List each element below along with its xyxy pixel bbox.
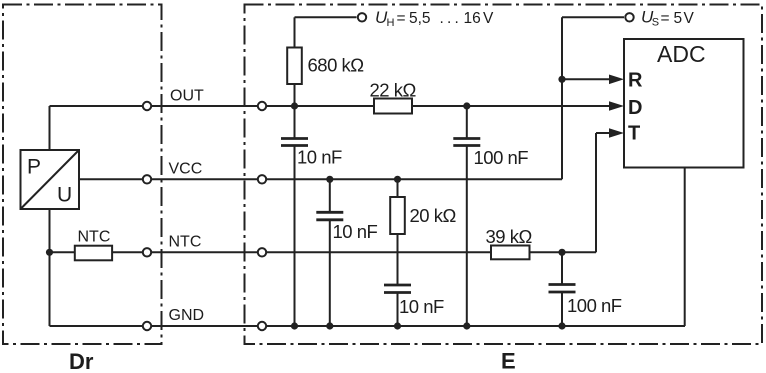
wire UH supply riser [294,17,296,47]
arrow into ADC pin T [609,128,624,138]
svg-text:Dr: Dr [69,349,94,373]
wire to NTC resistor [50,251,75,253]
svg-text:10 nF: 10 nF [297,147,342,168]
node C4/GND junction [463,322,470,329]
wire NTC rail connector [152,251,257,253]
wire sensor OUT vertical [49,106,51,150]
capacitor C1 10 nF [281,139,308,146]
terminal circle OUT E [258,102,266,110]
node R tap junction [558,76,565,83]
thermistor NTC [75,246,112,261]
wire NTC rail after 39k [530,251,597,253]
svg-text:H: H [387,17,395,29]
capacitor C5 100 nF [549,285,576,293]
terminal circle NTC E [258,248,266,256]
wire NTC rail to 39k [267,251,491,253]
svg-text:20 kΩ: 20 kΩ [410,205,457,226]
svg-text:NTC: NTC [78,229,111,246]
wire UH supply rail [295,16,357,18]
wire ADC ground [684,168,686,327]
capacitor C3 10 nF [384,285,411,293]
wire US supply riser [561,17,563,179]
terminal circle US [625,13,633,21]
IC ADC box [624,39,744,168]
svg-text:NTC: NTC [169,234,202,251]
wire sensor bottom vertical [49,209,51,326]
wire T line vertical [595,133,597,252]
wire GND rail in E [267,325,685,327]
wire OUT rail to 22k [267,105,374,107]
wire R line [562,78,609,80]
svg-text:10 nF: 10 nF [399,296,444,317]
svg-text:100 nF: 100 nF [567,295,622,316]
ECU block dashed box E [245,5,763,345]
resistor 39 kOhm [491,246,530,260]
terminal circle VCC E [258,175,266,183]
svg-text:U: U [57,184,72,207]
resistor 22 kOhm [374,99,412,114]
svg-text:T: T [628,123,640,145]
wire VCC rail connector [152,178,257,180]
svg-text:ADC: ADC [657,41,706,67]
arrow into ADC pin R [609,75,624,85]
wire VCC rail in E [267,178,562,180]
wire OUT rail Dr side [50,105,143,107]
wire C5 down to GND [561,292,563,326]
terminal circle VCC Dr [143,175,151,183]
svg-text:22 kΩ: 22 kΩ [370,80,417,101]
node NTC tap junction [46,249,53,256]
node NTC/C5 junction [558,249,565,256]
node C2/GND junction [326,322,333,329]
svg-text:R: R [628,70,643,92]
wire OUT rail connector [152,105,257,107]
svg-text:OUT: OUT [170,88,204,105]
svg-text:D: D [628,97,642,119]
resistor 20 kOhm [390,197,405,234]
capacitor C2 10 nF [316,212,343,220]
node OUT/680k junction [291,102,298,109]
svg-text:10 nF: 10 nF [333,221,378,242]
wire OUT node down to C4 [466,106,468,139]
node C1/GND junction [291,322,298,329]
wire OUT rail after 22k to ADC D [412,105,609,107]
wire C2 down to GND [329,220,331,326]
wire VCC node to C2 [329,179,331,212]
wire GND rail Dr side [50,325,143,327]
node VCC/20k junction [394,176,401,183]
svg-text:E: E [501,349,516,373]
wire VCC node to 20k [397,179,399,197]
node C3/GND junction [394,322,401,329]
node OUT/C4 junction [463,102,470,109]
svg-text:=5,5...16V: =5,5...16V [397,10,495,27]
svg-text:S: S [652,17,659,29]
wire T line horizontal [596,132,609,134]
sensor element U1 (P/U pressure sensor) [21,150,80,209]
wire C3 down to GND [397,293,399,327]
wire 680k to OUT node [294,84,296,106]
svg-text:=5V: =5V [661,10,695,27]
terminal circle OUT Dr [143,102,151,110]
svg-text:P: P [27,156,41,179]
svg-text:GND: GND [169,307,205,324]
svg-text:100 nF: 100 nF [474,147,529,168]
terminal circle UH [358,13,366,21]
svg-text:680 kΩ: 680 kΩ [308,55,365,76]
wire OUT node down to C1 [294,106,296,139]
wire C1 down to GND [294,146,296,327]
wire C5 top [561,252,563,284]
sensor block dashed box Dr [3,5,162,345]
wire sensor VCC [79,178,142,180]
resistor 680 kOhm [287,48,302,85]
terminal circle GND Dr [143,322,151,330]
terminal circle NTC Dr [143,248,151,256]
wire C4 down to GND [466,146,468,327]
node VCC/C2 junction [326,176,333,183]
wire 20k down to C3 [397,234,399,285]
wire NTC rail Dr side [112,251,142,253]
terminal circle GND E [258,322,266,330]
wire GND rail connector [152,325,257,327]
svg-text:39 kΩ: 39 kΩ [486,226,533,247]
svg-text:VCC: VCC [169,161,203,178]
wire US supply rail [562,16,624,18]
node C5/GND junction [558,322,565,329]
capacitor C4 100 nF [453,139,480,146]
arrow into ADC pin D [609,101,624,111]
